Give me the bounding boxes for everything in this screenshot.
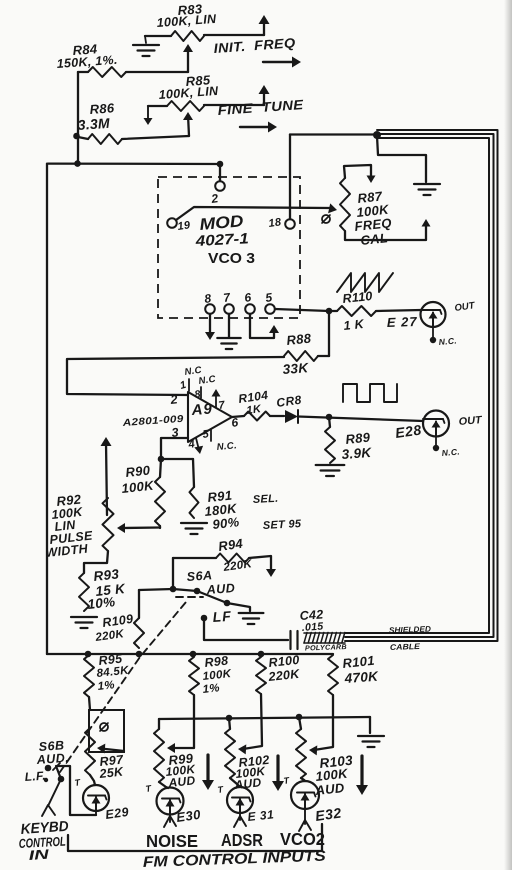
label R109 [94,612,134,644]
wire S6A pole up [172,558,174,589]
wire R83 left to ground [145,36,171,43]
label R92 [45,491,94,560]
svg-text:L.F.: L.F. [24,769,46,784]
wire E27 NC [430,327,436,343]
wire R84 right to R83 wiper [126,47,188,72]
label AUD S6A [205,581,235,597]
ground R91 [181,523,207,534]
label NOISE [146,831,198,851]
label NC pin8 [198,374,217,387]
label pin 5 opamp [202,428,211,441]
op-amp pin 1 stub [188,379,190,391]
label FM CONTROL INPUTS [143,848,326,870]
wire opamp out [232,416,244,417]
label pin 7 opamp [218,399,227,412]
wire R89 top [329,417,330,427]
ground R89 [316,465,345,476]
wire pot bus to ground [369,717,371,733]
label R103 [314,753,354,799]
label E31 [247,807,275,824]
resistor R88 [284,351,318,361]
wire pin 6 [250,314,279,338]
switch box S6B [89,710,124,752]
label OUT E28 [458,414,484,428]
label pin 19 [177,219,192,233]
wiper arrow R83 [183,44,193,52]
svg-text:N.C.: N.C. [216,440,237,453]
wire R85 left with arrow [144,106,168,125]
wire R88 right [318,355,329,357]
potentiometer R97 [85,728,95,775]
wire R101 to R103 wiper [309,695,333,755]
wire pot bus [159,717,370,719]
svg-text:AUD,: AUD, [35,751,69,767]
potentiometer R85 [167,101,204,111]
wire feedback loop [67,357,284,395]
svg-text:1%: 1% [97,679,115,693]
wire node to R110 [329,310,337,312]
label R83 [156,1,217,30]
label pin 2 opamp [169,392,179,407]
svg-text:CAL: CAL [360,230,389,248]
wire R92 bottom to R93 [84,551,108,573]
label T E30 [145,783,153,794]
label R91 [204,487,240,532]
label CABLE [390,642,421,652]
svg-text:4027-1: 4027-1 [194,230,249,250]
label T E32 [283,775,291,786]
label pin 8 opamp [194,388,202,401]
svg-text:SEL.: SEL. [253,493,279,506]
svg-text:S6A: S6A [186,568,213,584]
label KEYBD [18,819,69,863]
switch S6A lever [197,591,227,603]
svg-text:IN: IN [28,847,49,863]
wire R90 bottom to R92 wiper [122,526,160,528]
label CR8 [275,393,302,410]
wire CR8 to E28 [298,417,423,422]
jack E31 [227,787,253,813]
wiper arrow R92 [117,523,125,533]
label pin 4 opamp [187,438,196,451]
label R90 [121,462,156,496]
label pin 7 [222,290,232,305]
label E32 [314,804,342,824]
jack E28 [423,411,449,437]
label MOD [199,212,244,234]
resistor R90 [155,477,165,526]
svg-text:1K: 1K [246,403,263,417]
sawtooth waveform icon [337,273,393,292]
wire R91 top [193,459,194,487]
resistor R94 [216,554,249,563]
label T E31 [217,784,225,795]
shielded cable inner [345,138,489,633]
wire R104 to CR8 [270,415,284,417]
wire R94 right arrow [249,556,276,577]
bracket FM control inputs [68,824,322,851]
wire pin 5 to node [275,309,329,311]
potentiometer R92 [103,498,114,551]
label E29 [104,805,129,822]
arrow fine tune direction [240,122,277,133]
page edge band [504,0,512,870]
node S6B AUD contact [45,765,52,772]
svg-text:25K: 25K [98,764,125,781]
label NC pin1 [184,365,203,378]
resistor R101 [328,655,338,695]
jack E32 [291,781,319,809]
pin 7 circle [224,304,234,314]
label pin 8 [203,291,212,306]
capacitor C42 [291,631,298,649]
wire left rail [46,164,48,654]
label E30 [175,807,202,825]
wire E29 sleeve [95,811,97,815]
label ADSR [221,830,263,850]
label A2801-009 [121,414,184,429]
wire R86 right to R85 wiper [122,115,189,139]
svg-text:SHIELDED: SHIELDED [389,625,432,635]
svg-text:AUD: AUD [205,581,235,597]
node R102 tap [226,715,233,722]
label pin 5 [264,290,273,305]
svg-text:OUT: OUT [458,414,484,428]
arrow R99 direction [202,755,214,790]
label A9 [190,401,213,420]
svg-text:N.C.: N.C. [441,446,460,458]
wire R103 top [299,717,301,729]
resistor R109 [134,618,144,648]
resistor R95 [84,655,94,697]
wire E31 sleeve [234,813,246,827]
resistor R104 [244,412,270,421]
cable dielectric hatch [304,633,345,644]
svg-text:N.C.: N.C. [438,335,457,347]
svg-text:470K: 470K [343,669,379,686]
svg-text:E 31: E 31 [247,807,275,824]
wire pole link [173,589,197,591]
label R99 [165,750,197,790]
resistor R110 [337,306,376,316]
jack E29 [83,785,109,811]
wire lower bus [47,653,333,655]
wire R83 right / off-page arrow up [204,15,270,35]
pin 18 circle [285,219,295,229]
square waveform icon [343,384,397,402]
label pin 2 [209,191,219,206]
label S6A [186,568,213,584]
op-amp pin 5 stub [210,429,212,441]
svg-text:A9: A9 [190,401,213,420]
resistor R84 [88,67,126,77]
label R95 [96,651,130,692]
wire R109 top [139,589,173,618]
resistor R86 [88,134,122,144]
label R100 [267,653,301,684]
label T E29 [74,777,82,788]
svg-text:R98: R98 [204,654,229,670]
wire bus to pin 2 [219,164,221,181]
diode CR8 [285,410,298,423]
wire AUD to E29 sleeve [57,766,96,815]
resistor R93 [79,573,89,611]
shielded cable outer [345,130,498,641]
label FINE TUNE [217,97,305,118]
wiper arrow R85 [183,112,193,120]
label R89 [341,429,373,462]
node cable junction [373,131,381,139]
svg-text:R88: R88 [286,330,313,348]
wire pin 19 to R87 wiper [176,203,337,220]
wire R99 top [158,719,160,729]
node S6B pole [58,776,65,783]
potentiometer R99 [154,729,164,782]
label R110 [342,289,373,333]
wire E28 NC [433,437,439,452]
node R100 tap [258,651,265,658]
wire to ground R87 [377,136,426,182]
potentiometer R102 [225,729,235,778]
svg-text:E 27: E 27 [387,314,418,330]
label VCO 3 [208,250,255,267]
op-amp pin 7 supply arrow [212,389,221,407]
wire E32 sleeve [299,809,311,831]
ground pot bus [358,736,384,747]
potentiometer R103 [296,729,306,778]
svg-text:SET 95: SET 95 [263,518,303,532]
pin 8 circle [205,304,215,314]
node saw junction [326,308,333,315]
wire R102 to E31 [230,778,239,786]
wire R84 left [78,71,88,73]
wire vertical from R84 [77,72,79,164]
label pin 18 [268,216,283,230]
svg-text:1 K: 1 K [343,317,365,333]
wire R100 to R102 wiper [238,694,262,754]
wire pin 18 up [289,135,291,220]
wire R103 to E32 [301,778,305,781]
label SET 95 [263,518,303,532]
node R86 junction [73,133,80,140]
node S6A LF contact [201,615,208,622]
wire R85 right / off-page arrow up [204,85,270,105]
svg-text:2: 2 [169,392,179,407]
node pin2 junction [217,161,224,168]
wire R99 to E30 [159,782,168,788]
wire R90 top [160,459,161,477]
svg-text:.015: .015 [301,621,323,634]
resistor R89 [325,427,335,463]
svg-text:18: 18 [268,216,283,230]
wire pin 8 down arrow [205,314,215,340]
trim mark R87 [322,215,330,223]
shielded cable middle [345,134,494,637]
wire top rail [290,133,377,135]
svg-text:33K: 33K [282,360,310,377]
label R87 [354,188,393,248]
wire pin 7 to ground [228,314,230,337]
wire R87 top + cw arrow [344,165,376,183]
label INIT. FREQ [213,35,296,56]
label R88 [282,330,312,377]
op-amp pin 8 stub [200,387,202,398]
resistor R100 [256,657,266,694]
label R101 [342,653,380,686]
label R93 [87,566,127,612]
svg-text:90%: 90% [212,514,240,532]
wire R110 to E27 [376,310,421,311]
wire R87 bottom + ccw arrow [345,219,431,240]
wire summing bus [48,162,220,165]
label OUT E27 [454,300,477,314]
svg-text:ADSR: ADSR [221,830,263,850]
ground pin 7 [217,338,240,349]
svg-text:VCO 3: VCO 3 [208,250,255,267]
wire R102 top [229,718,230,729]
label R97 [98,752,125,781]
wire pin 3 input [161,438,188,459]
label SEL. [253,493,279,506]
wire AUD to ground [227,603,250,611]
wire R94 left [173,557,216,559]
node R95 tap [85,651,92,658]
resistor R91 [190,487,199,518]
label NC pin5 [216,440,237,453]
pin 5 circle [265,304,275,314]
svg-text:LF: LF [212,608,232,625]
label pin 6 opamp [230,415,239,430]
label pin 1 opamp [179,379,188,392]
label VCO2 [280,829,325,849]
node R89 junction [326,414,333,421]
ground near R87 [414,184,440,195]
svg-text:POLYCARB: POLYCARB [305,642,347,652]
label POLYCARB [305,642,347,652]
wire saw node down [328,311,330,356]
svg-text:1%: 1% [202,682,220,696]
potentiometer R87 [340,178,350,231]
wire E30 sleeve [164,815,176,828]
wire KEYBD in [42,779,61,816]
label NC E27 [438,335,457,347]
jack E27 [421,302,446,327]
node R103 tap [296,714,303,721]
jack E30 [157,788,184,815]
wire R98 to R99 wiper [167,695,194,753]
node S6A AUD contact [224,600,231,607]
op-amp A9 triangle [188,392,232,442]
wire R92 supply arrow [101,437,112,515]
svg-text:3.3M: 3.3M [77,115,110,133]
label E28 [394,421,422,441]
label pin 6 [243,290,252,305]
node R98 tap [190,651,197,658]
label SHIELDED [389,625,432,635]
arrow R103 direction [356,756,368,795]
op-amp pin 4 supply arrow [194,438,203,454]
node bus-left junction [74,160,81,167]
label 4027-1 [194,230,249,250]
pin 2 circle [215,181,225,191]
label R94 [217,536,253,575]
module MOD 4027-1 dashed box [158,177,300,318]
label LF [212,608,232,625]
node S6A pole [170,586,201,595]
arrow init freq direction [263,57,301,68]
ground R93 [71,617,97,628]
switch S6B lever [53,763,61,779]
label R86 [77,100,115,133]
wire LF to C42 [204,618,288,640]
potentiometer R83 [171,31,204,41]
label NC E28 [441,446,460,458]
ground under R83 [133,45,159,56]
pin 6 circle [245,304,255,314]
node pin3 junction [158,456,165,463]
label C42 [299,607,324,634]
svg-text:VCO2: VCO2 [280,829,325,849]
wire R95 to box [89,697,90,710]
label S6B [38,738,65,754]
ground S6A [239,613,264,624]
node S6B LF contact [44,778,48,782]
wire R86 left [78,137,88,139]
label R98 [202,654,232,696]
label AUD S6B [35,751,69,767]
label E27 [387,314,418,330]
label R104 [237,388,269,417]
wire junction to R91 [161,458,193,460]
resistor R98 [189,657,199,695]
label R84 [56,41,118,71]
wire R97 to E29 [90,775,95,785]
label R102 [233,753,270,792]
label R85 [158,72,219,102]
svg-text:10%: 10% [87,594,116,612]
svg-text:19: 19 [177,219,192,233]
wiper R97 [97,744,124,754]
svg-text:NOISE: NOISE [146,831,198,851]
trim mark S6B [100,723,108,731]
node R109 tap [136,651,143,658]
label pin 3 opamp [171,425,180,440]
label LF S6B [24,769,46,784]
arrow R102 direction [272,756,284,791]
svg-text:CABLE: CABLE [390,642,421,652]
pin 19 circle [167,218,177,228]
ganged switch dashed link [60,597,203,772]
svg-text:3.9K: 3.9K [341,445,373,462]
